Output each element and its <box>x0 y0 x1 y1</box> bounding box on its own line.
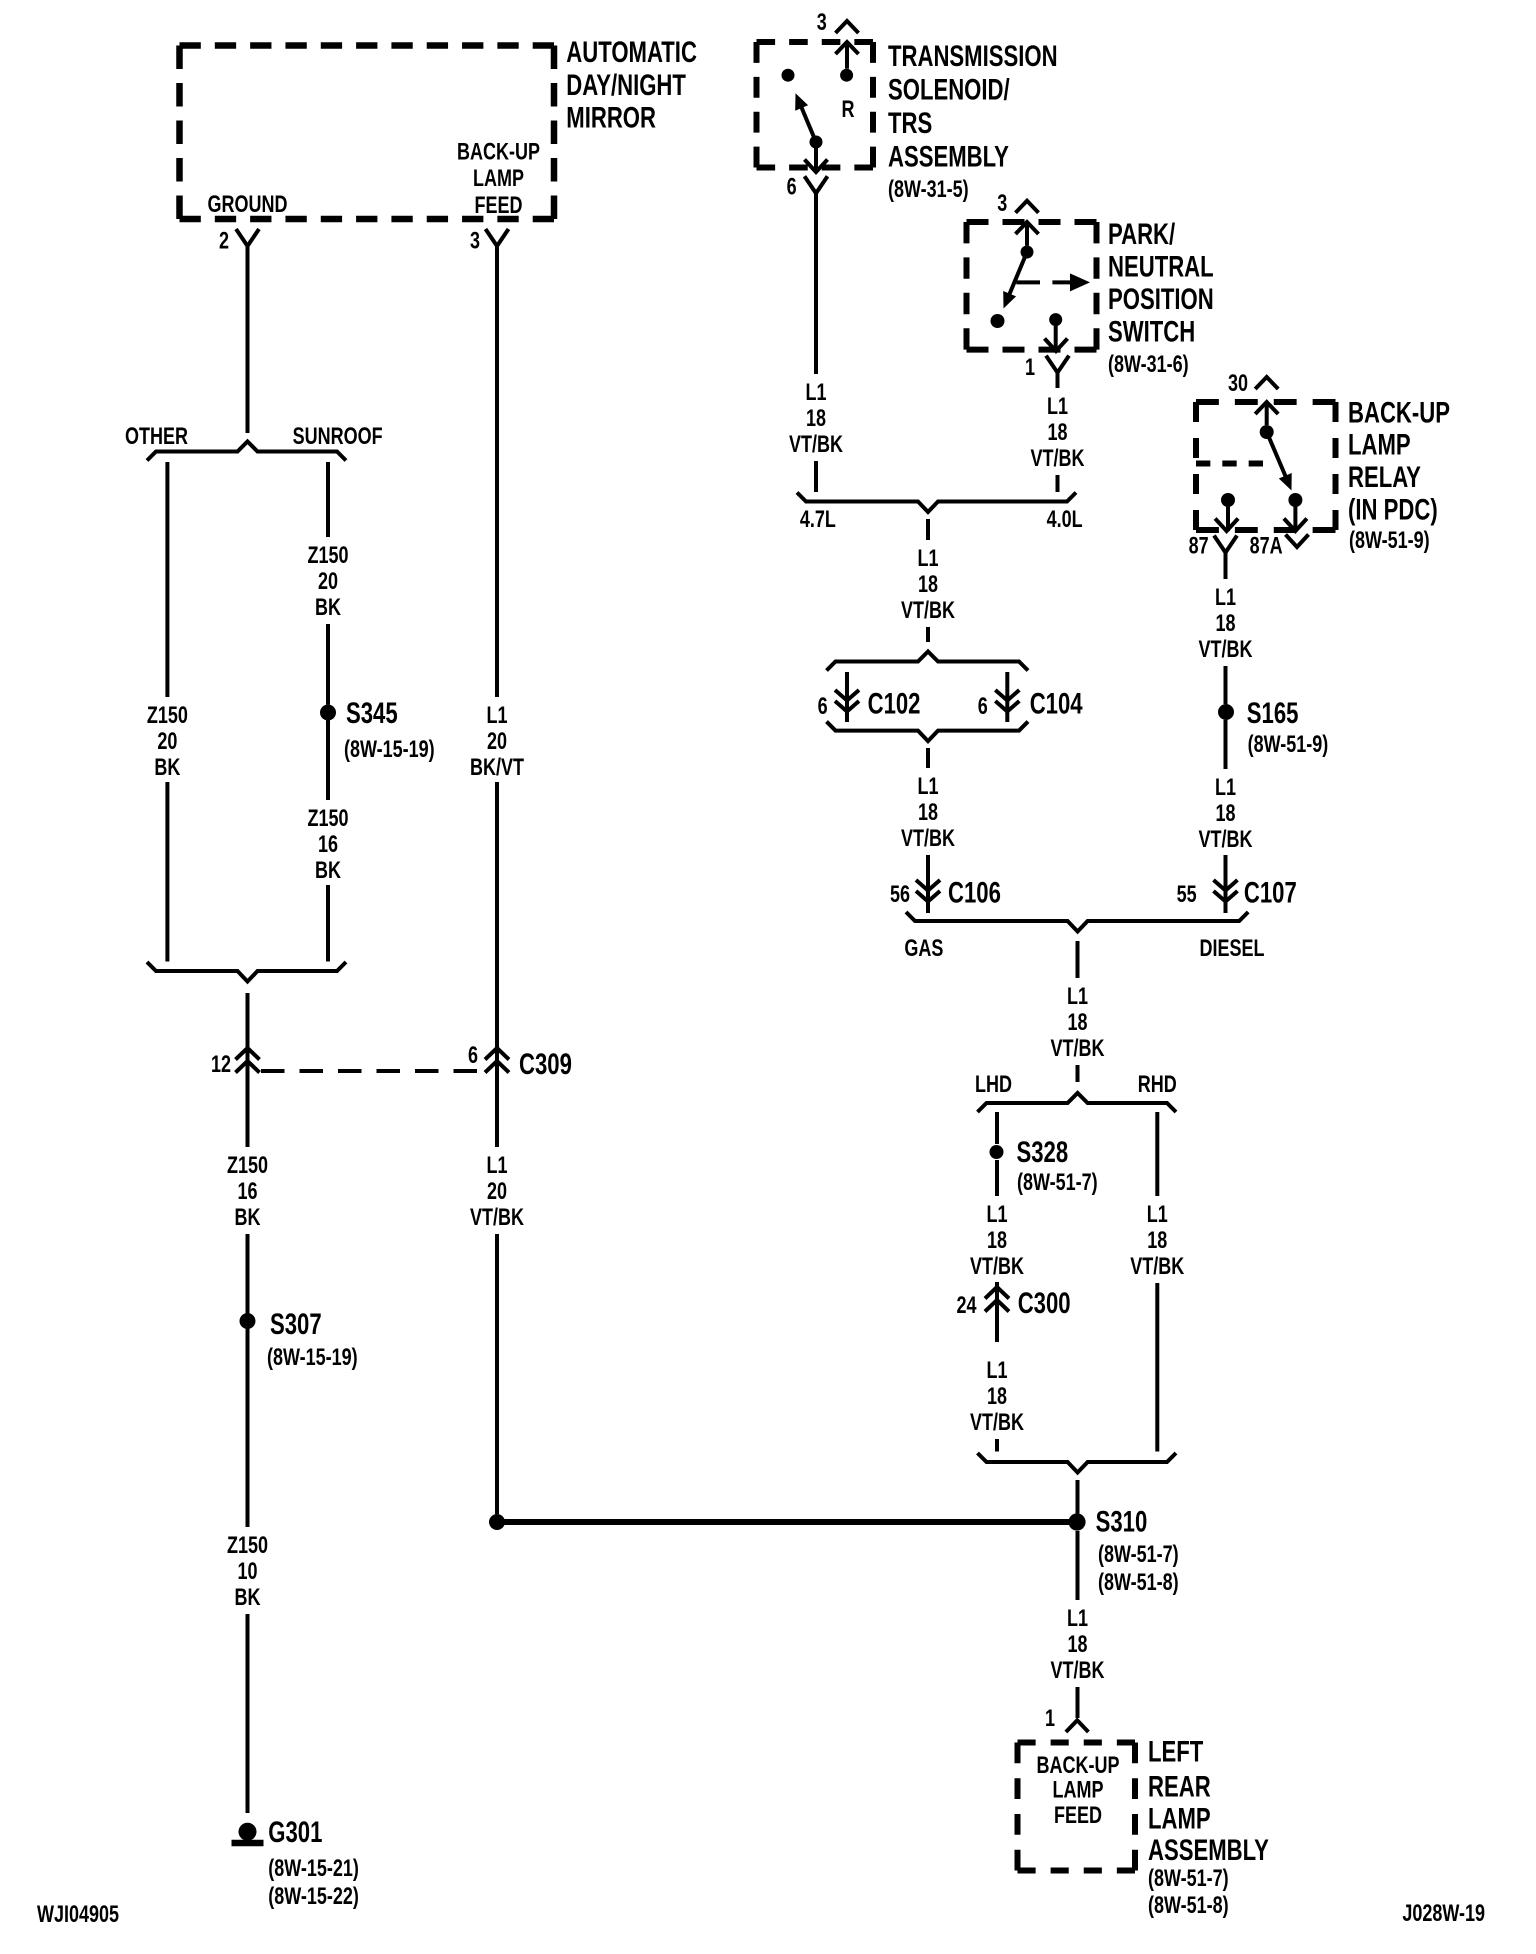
svg-text:OTHER: OTHER <box>125 424 188 450</box>
svg-text:(8W-51-8): (8W-51-8) <box>1098 1570 1179 1596</box>
svg-text:VT/BK: VT/BK <box>470 1205 525 1231</box>
svg-text:FEED: FEED <box>475 193 523 219</box>
svg-text:BK: BK <box>315 595 342 621</box>
svg-text:30: 30 <box>1228 371 1248 397</box>
svg-text:2: 2 <box>219 228 229 254</box>
svg-text:L1: L1 <box>486 703 507 729</box>
svg-text:18: 18 <box>987 1228 1007 1254</box>
svg-text:G301: G301 <box>268 1815 322 1849</box>
svg-text:LAMP: LAMP <box>1053 1777 1104 1803</box>
svg-text:Z150: Z150 <box>307 806 348 832</box>
svg-text:FEED: FEED <box>1054 1802 1102 1828</box>
svg-text:20: 20 <box>318 569 338 595</box>
svg-text:C300: C300 <box>1018 1286 1071 1320</box>
svg-text:18: 18 <box>1067 1632 1087 1658</box>
svg-text:18: 18 <box>918 572 938 598</box>
svg-text:TRANSMISSION: TRANSMISSION <box>888 39 1058 73</box>
svg-text:L1: L1 <box>1215 775 1236 801</box>
svg-text:BK: BK <box>235 1585 262 1611</box>
svg-text:RELAY: RELAY <box>1348 460 1421 494</box>
svg-text:SUNROOF: SUNROOF <box>293 424 383 450</box>
svg-text:NEUTRAL: NEUTRAL <box>1108 249 1214 283</box>
svg-text:C102: C102 <box>868 686 921 720</box>
svg-text:VT/BK: VT/BK <box>901 826 956 852</box>
svg-text:18: 18 <box>1215 801 1235 827</box>
svg-text:L1: L1 <box>1067 984 1088 1010</box>
svg-text:Z150: Z150 <box>227 1153 268 1179</box>
svg-text:(8W-15-21): (8W-15-21) <box>268 1856 359 1882</box>
svg-text:VT/BK: VT/BK <box>1031 446 1086 472</box>
svg-text:18: 18 <box>1147 1228 1167 1254</box>
svg-text:4.7L: 4.7L <box>800 507 836 533</box>
svg-text:16: 16 <box>237 1179 257 1205</box>
svg-text:LAMP: LAMP <box>473 166 524 192</box>
svg-text:L1: L1 <box>986 1202 1007 1228</box>
svg-text:BACK-UP: BACK-UP <box>1348 395 1450 429</box>
svg-text:AUTOMATIC: AUTOMATIC <box>566 35 697 69</box>
svg-text:6: 6 <box>787 174 797 200</box>
svg-text:SWITCH: SWITCH <box>1108 314 1195 348</box>
svg-text:S165: S165 <box>1247 696 1299 730</box>
svg-text:GAS: GAS <box>904 936 943 962</box>
svg-text:VT/BK: VT/BK <box>1051 1036 1106 1062</box>
svg-text:LAMP: LAMP <box>1148 1802 1211 1836</box>
svg-text:VT/BK: VT/BK <box>1130 1254 1185 1280</box>
svg-text:20: 20 <box>157 729 177 755</box>
svg-text:SOLENOID/: SOLENOID/ <box>888 72 1010 106</box>
svg-text:POSITION: POSITION <box>1108 282 1214 316</box>
svg-text:3: 3 <box>817 10 827 36</box>
svg-text:18: 18 <box>1067 1010 1087 1036</box>
svg-text:VT/BK: VT/BK <box>1199 637 1254 663</box>
svg-text:GROUND: GROUND <box>208 192 288 218</box>
svg-text:18: 18 <box>1215 611 1235 637</box>
svg-text:BACK-UP: BACK-UP <box>1037 1753 1120 1779</box>
svg-text:ASSEMBLY: ASSEMBLY <box>888 139 1009 173</box>
svg-text:20: 20 <box>487 1179 507 1205</box>
svg-text:Z150: Z150 <box>307 543 348 569</box>
svg-text:20: 20 <box>487 729 507 755</box>
svg-text:J028W-19: J028W-19 <box>1402 1901 1485 1927</box>
svg-text:VT/BK: VT/BK <box>970 1410 1025 1436</box>
svg-text:10: 10 <box>237 1559 257 1585</box>
svg-text:L1: L1 <box>986 1358 1007 1384</box>
svg-text:S310: S310 <box>1096 1505 1148 1539</box>
svg-text:C104: C104 <box>1030 686 1083 720</box>
svg-text:R: R <box>842 97 855 123</box>
svg-text:55: 55 <box>1177 882 1197 908</box>
svg-text:VT/BK: VT/BK <box>1051 1658 1106 1684</box>
svg-text:18: 18 <box>918 800 938 826</box>
svg-text:18: 18 <box>806 406 826 432</box>
svg-text:1: 1 <box>1025 355 1035 381</box>
svg-text:BK: BK <box>154 755 181 781</box>
svg-text:LHD: LHD <box>975 1072 1012 1098</box>
svg-text:(8W-51-7): (8W-51-7) <box>1017 1170 1098 1196</box>
svg-text:S328: S328 <box>1017 1135 1069 1169</box>
svg-text:VT/BK: VT/BK <box>970 1254 1025 1280</box>
svg-text:24: 24 <box>956 1293 976 1319</box>
svg-text:6: 6 <box>818 694 828 720</box>
svg-text:87A: 87A <box>1250 533 1283 559</box>
svg-text:VT/BK: VT/BK <box>901 598 956 624</box>
svg-text:BK: BK <box>315 858 342 884</box>
svg-text:ASSEMBLY: ASSEMBLY <box>1148 1833 1269 1867</box>
svg-text:VT/BK: VT/BK <box>1199 827 1254 853</box>
svg-text:(8W-51-9): (8W-51-9) <box>1349 528 1430 554</box>
svg-text:S307: S307 <box>270 1307 322 1341</box>
svg-text:(8W-51-7): (8W-51-7) <box>1098 1542 1179 1568</box>
svg-text:(8W-15-19): (8W-15-19) <box>344 737 435 763</box>
svg-text:LEFT: LEFT <box>1148 1734 1203 1768</box>
svg-text:PARK/: PARK/ <box>1108 217 1175 251</box>
svg-text:DAY/NIGHT: DAY/NIGHT <box>566 68 686 102</box>
svg-text:L1: L1 <box>1147 1202 1168 1228</box>
svg-text:VT/BK: VT/BK <box>789 432 844 458</box>
svg-text:L1: L1 <box>805 380 826 406</box>
svg-text:C107: C107 <box>1244 875 1297 909</box>
svg-text:87: 87 <box>1189 533 1209 559</box>
svg-text:(8W-51-8): (8W-51-8) <box>1148 1893 1229 1919</box>
svg-text:(8W-51-9): (8W-51-9) <box>1248 732 1329 758</box>
svg-text:3: 3 <box>470 228 480 254</box>
svg-text:(8W-51-7): (8W-51-7) <box>1148 1866 1229 1892</box>
svg-text:3: 3 <box>997 191 1007 217</box>
svg-text:REAR: REAR <box>1148 1769 1211 1803</box>
svg-text:DIESEL: DIESEL <box>1200 936 1265 962</box>
svg-text:18: 18 <box>1047 420 1067 446</box>
svg-text:L1: L1 <box>917 546 938 572</box>
svg-text:BK: BK <box>235 1205 262 1231</box>
svg-text:4.0L: 4.0L <box>1047 507 1083 533</box>
svg-text:Z150: Z150 <box>147 703 188 729</box>
svg-text:Z150: Z150 <box>227 1533 268 1559</box>
svg-text:16: 16 <box>318 832 338 858</box>
svg-text:(8W-15-22): (8W-15-22) <box>268 1884 359 1910</box>
svg-text:(8W-31-6): (8W-31-6) <box>1108 352 1189 378</box>
svg-text:S345: S345 <box>346 696 398 730</box>
svg-text:L1: L1 <box>1047 394 1068 420</box>
svg-text:6: 6 <box>978 694 988 720</box>
svg-text:BK/VT: BK/VT <box>470 755 524 781</box>
svg-text:BACK-UP: BACK-UP <box>457 139 540 165</box>
svg-text:56: 56 <box>890 882 910 908</box>
svg-text:(8W-31-5): (8W-31-5) <box>888 177 969 203</box>
svg-text:L1: L1 <box>1067 1606 1088 1632</box>
svg-text:1: 1 <box>1045 1706 1055 1732</box>
svg-text:MIRROR: MIRROR <box>566 100 656 134</box>
svg-text:(8W-15-19): (8W-15-19) <box>267 1345 358 1371</box>
svg-text:RHD: RHD <box>1138 1072 1177 1098</box>
svg-text:L1: L1 <box>917 774 938 800</box>
svg-text:LAMP: LAMP <box>1348 427 1411 461</box>
svg-text:6: 6 <box>468 1043 478 1069</box>
svg-text:18: 18 <box>987 1384 1007 1410</box>
svg-text:C106: C106 <box>948 875 1001 909</box>
svg-text:WJI04905: WJI04905 <box>37 1902 119 1928</box>
svg-text:L1: L1 <box>486 1153 507 1179</box>
svg-text:(IN PDC): (IN PDC) <box>1348 492 1438 526</box>
svg-text:TRS: TRS <box>888 106 932 140</box>
svg-text:L1: L1 <box>1215 585 1236 611</box>
svg-text:C309: C309 <box>519 1047 572 1081</box>
svg-text:12: 12 <box>211 1052 231 1078</box>
